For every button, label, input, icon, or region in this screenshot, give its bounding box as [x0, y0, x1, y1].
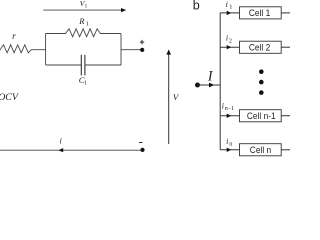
wire branch n-1 out: [281, 115, 290, 117]
wire bottom return with current i: [0, 149, 143, 151]
wire input current I: [198, 84, 221, 86]
svg-text:Cell n-1: Cell n-1: [247, 110, 276, 121]
svg-text:1: 1: [229, 5, 232, 11]
svg-text:i: i: [226, 34, 228, 43]
svg-text:Cell 1: Cell 1: [249, 8, 270, 19]
ellipsis dots: [259, 69, 264, 74]
svg-text:1: 1: [86, 21, 89, 28]
svg-text:OCV: OCV: [0, 92, 19, 103]
svg-text:i: i: [226, 0, 228, 9]
wire RC bottom rail right: [85, 64, 121, 66]
svg-text:Cell n: Cell n: [250, 145, 271, 156]
wire branch 1 with current i1: [220, 12, 239, 14]
label plus: [140, 40, 144, 44]
wire branch 2 out: [281, 46, 290, 48]
node input junction: [195, 83, 200, 88]
svg-text:n: n: [229, 141, 232, 147]
label minus: [139, 142, 142, 144]
wire to positive terminal: [121, 49, 142, 51]
capacitor C1: [81, 55, 85, 76]
svg-text:1: 1: [84, 80, 87, 87]
wire RC top rail left: [46, 33, 66, 35]
wire branch 2 with current i2: [220, 46, 239, 48]
wire RC bottom rail left: [46, 64, 82, 66]
wire bus vertical: [219, 13, 221, 150]
svg-text:r: r: [12, 31, 16, 41]
wire branch 1 out: [281, 12, 290, 14]
svg-text:1: 1: [85, 3, 88, 9]
cell box Cell n: [240, 144, 282, 156]
wire branch n with current in: [220, 149, 239, 151]
node positive terminal: [140, 48, 144, 52]
cell box Cell n-1: [240, 110, 282, 122]
svg-text:2: 2: [229, 38, 232, 44]
wire RC left vertical: [45, 34, 47, 66]
resistor r: [0, 45, 46, 53]
wire V1 arrow: [43, 9, 121, 11]
svg-text:b: b: [193, 0, 200, 13]
svg-text:i: i: [222, 101, 224, 110]
svg-text:R: R: [78, 16, 85, 26]
cell box Cell 1: [240, 7, 282, 19]
node negative terminal: [140, 148, 144, 152]
wire branch n-1 with current i(n-1): [220, 115, 239, 117]
wire terminal voltage V arrow: [168, 54, 170, 144]
wire RC top rail right: [100, 33, 121, 35]
svg-text:i: i: [226, 137, 228, 146]
cell box Cell 2: [240, 41, 282, 53]
wire RC right vertical: [120, 34, 122, 66]
resistor R1: [66, 29, 101, 37]
svg-text:n−1: n−1: [225, 106, 234, 112]
wire branch n out: [281, 149, 290, 151]
svg-text:Cell 2: Cell 2: [249, 42, 270, 53]
